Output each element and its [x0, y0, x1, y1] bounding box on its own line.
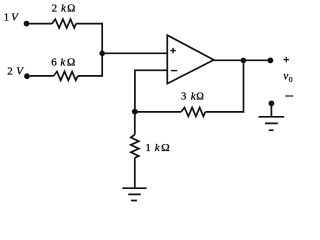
wire R1 to top corner	[76, 23, 102, 25]
wire op-amp output	[214, 59, 271, 61]
wire R2 to bottom corner	[78, 75, 102, 77]
svg-text:2kΩ: 2kΩ	[52, 2, 76, 14]
label 2 V	[7, 66, 24, 78]
svg-text:3kΩ: 3kΩ	[181, 90, 204, 102]
label output minus sign	[285, 95, 293, 97]
wire 1V lead	[29, 23, 52, 25]
wire node A to op-amp noninverting input	[102, 52, 166, 54]
op-amp plus input symbol	[170, 48, 175, 53]
svg-text:0: 0	[289, 75, 293, 84]
label 3 kOhm	[181, 90, 204, 102]
resistor 2 kOhm	[52, 19, 76, 28]
wire vertical branch bus	[101, 23, 103, 77]
ground symbol left	[122, 188, 146, 200]
node A junction dot	[99, 51, 105, 57]
label v0 output voltage	[283, 70, 293, 84]
resistor 6 kOhm	[54, 72, 78, 81]
svg-text:2V: 2V	[7, 66, 24, 78]
label 1 V	[4, 12, 20, 24]
wire feedback from output junction down and through R3	[205, 60, 243, 112]
output junction dot	[241, 58, 247, 64]
label 1 kOhm	[145, 142, 169, 154]
node B junction dot	[132, 109, 138, 115]
op-amp U1	[167, 35, 214, 83]
resistor 1 kOhm	[131, 135, 139, 158]
ground symbol right	[259, 117, 285, 130]
svg-text:6kΩ: 6kΩ	[51, 57, 75, 69]
wire op-amp inverting input to node B	[135, 70, 167, 112]
op-amp minus input symbol	[171, 70, 177, 72]
output terminal dot lower	[269, 101, 275, 107]
wire output terminal lower stem	[270, 103, 272, 116]
output terminal dot upper	[268, 58, 274, 64]
label 6 kOhm	[51, 57, 75, 69]
wire node B down to R4	[134, 112, 136, 135]
wire node B to R3	[135, 111, 181, 113]
label output plus sign	[284, 57, 290, 63]
resistor 3 kOhm	[181, 108, 205, 117]
terminal dot source 2V	[24, 73, 30, 79]
terminal dot source 1V	[24, 21, 30, 27]
wire R4 to ground	[134, 158, 136, 188]
wire 2V lead	[30, 75, 54, 77]
svg-text:1kΩ: 1kΩ	[145, 142, 169, 154]
label 2 kOhm	[52, 2, 76, 14]
svg-text:1V: 1V	[4, 12, 20, 24]
